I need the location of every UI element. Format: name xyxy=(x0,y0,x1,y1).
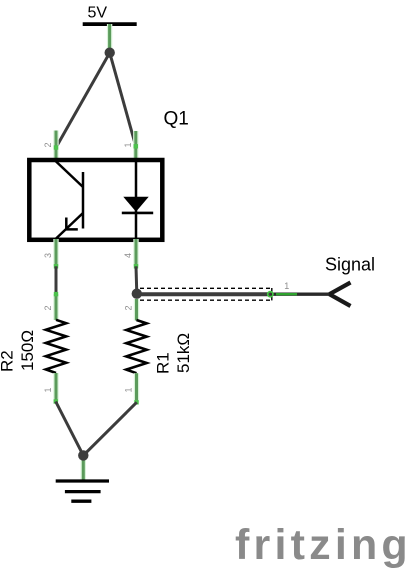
phototransistor of Q1 xyxy=(55,161,83,240)
svg-text:51kΩ: 51kΩ xyxy=(174,333,193,373)
LED diode of Q1 xyxy=(122,161,153,240)
resistor R1 pin2 leg xyxy=(134,299,139,321)
wire 5V junction to pin2 xyxy=(56,53,110,148)
wire junction to signal pin xyxy=(137,292,271,296)
svg-text:1: 1 xyxy=(43,387,53,392)
wire 5V junction to pin1 xyxy=(110,53,136,147)
ratsnest dashed outline top xyxy=(140,287,272,289)
junction dot at pin4 xyxy=(132,289,142,299)
svg-text:2: 2 xyxy=(43,305,53,310)
svg-text:R2: R2 xyxy=(0,350,17,372)
svg-text:3: 3 xyxy=(43,253,53,258)
svg-text:Signal: Signal xyxy=(325,255,375,275)
ground pin leg xyxy=(81,455,86,481)
resistor R2 pin1 leg xyxy=(54,373,58,404)
svg-text:Q1: Q1 xyxy=(164,108,189,129)
wire pin3 to R2 xyxy=(55,266,58,294)
svg-text:2: 2 xyxy=(124,305,134,310)
ratsnest dashed outline bottom xyxy=(140,299,272,301)
svg-text:fritzing: fritzing xyxy=(235,521,408,569)
ground symbol xyxy=(56,481,109,501)
svg-text:2: 2 xyxy=(43,142,53,147)
optocoupler Q1 body xyxy=(29,160,162,240)
wire R2 to ground junction xyxy=(56,402,84,456)
junction dot at 5V xyxy=(105,48,115,58)
resistor R2 pin2 leg xyxy=(54,292,58,320)
pin 3 leg (bottom-left of Q1) xyxy=(54,239,58,269)
svg-text:1: 1 xyxy=(124,387,134,392)
wire stub to loose wire end xyxy=(271,293,331,296)
svg-text:1: 1 xyxy=(284,281,289,291)
resistor R1 pin1 leg xyxy=(134,373,138,404)
signal header pin 1 leg xyxy=(268,292,297,297)
svg-text:1: 1 xyxy=(123,142,133,147)
svg-text:R1: R1 xyxy=(154,352,173,374)
pin 1 leg (top-right of Q1) xyxy=(134,131,138,161)
svg-text:4: 4 xyxy=(123,253,133,258)
svg-text:5V: 5V xyxy=(88,5,108,22)
ratsnest dashed outline right cap xyxy=(271,288,273,300)
power symbol 5V bar xyxy=(83,22,137,26)
wire R1 to ground junction xyxy=(83,402,136,455)
wire pin4 to junction xyxy=(135,266,139,293)
resistor R1 zigzag xyxy=(126,320,146,373)
loose wire end fork xyxy=(329,283,350,307)
pin 2 leg (top-left of Q1) xyxy=(54,131,58,162)
pin 4 leg (bottom-right of Q1) xyxy=(134,239,138,269)
junction dot at ground xyxy=(78,450,88,460)
resistor R2 zigzag xyxy=(46,320,66,373)
svg-text:150Ω: 150Ω xyxy=(18,330,37,371)
pin: 5V supply leg xyxy=(107,24,112,50)
